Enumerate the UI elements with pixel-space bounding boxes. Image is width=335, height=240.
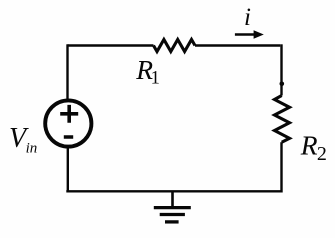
- minus sign of source: [64, 135, 73, 139]
- wire left vertical upper (top-left corner to source): [66, 44, 68, 100]
- svg-text:R2: R2: [300, 129, 327, 165]
- wire left vertical lower (source to bottom-left corner): [67, 147, 69, 192]
- ground bar 2: [160, 213, 185, 216]
- voltage source V_in circle: [45, 100, 91, 146]
- resistor R2: [275, 96, 290, 143]
- wire top-left horizontal (Vin top to R1): [68, 44, 154, 46]
- wire right vertical lower (R2 to bottom-right corner): [280, 142, 282, 192]
- wire right vertical upper (corner down to R2): [280, 44, 282, 95]
- ground bar 1: [154, 206, 191, 209]
- resistor R1: [154, 40, 196, 52]
- node junction dot on right wire: [280, 82, 285, 87]
- plus sign of source: [60, 105, 78, 123]
- wire bottom horizontal: [66, 190, 281, 192]
- svg-text:R1: R1: [135, 54, 160, 89]
- svg-text:i: i: [244, 4, 251, 31]
- ground stub: [171, 192, 174, 207]
- ground bar 3: [165, 220, 179, 223]
- svg-text:Vin: Vin: [9, 123, 37, 157]
- wire top-right horizontal (R1 to top-right corner): [195, 44, 280, 46]
- current arrow: [235, 33, 255, 36]
